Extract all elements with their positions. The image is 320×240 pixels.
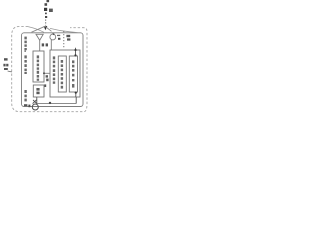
terminal circle on module boundary bbox=[32, 104, 38, 110]
wire (housing top edge sloping to rail, left) bbox=[28, 27, 44, 33]
block B (second tall inner box) bbox=[69, 56, 77, 92]
label text column along module left edge (segment 3) bbox=[24, 90, 26, 101]
node label 424 (between wires) bbox=[42, 43, 48, 46]
label text column inside main block left bbox=[53, 56, 55, 83]
transducer X1 (circle hanging from top rail) bbox=[52, 33, 54, 34]
block U1 (left tall box) bbox=[33, 51, 44, 82]
node label 110 (vertical reference numeral at top) bbox=[44, 0, 53, 18]
wire from block B bottom to main block bottom bbox=[75, 92, 77, 97]
label text column along module left edge (segment 2) bbox=[24, 55, 26, 74]
housing (outer dashed rounded enclosure) bbox=[12, 27, 87, 112]
transistor Q1 (emitter marks above bottom circle) bbox=[36, 97, 38, 104]
node label 34 (under wire) bbox=[46, 75, 48, 77]
node label 108 bbox=[66, 35, 70, 37]
main block (big right box) bbox=[50, 50, 80, 97]
label text in block A bbox=[61, 60, 63, 89]
wire lead to housing bbox=[8, 71, 12, 72]
junction dot bbox=[74, 49, 76, 51]
node label 28 (right of circle) bbox=[57, 35, 60, 36]
junction dot bbox=[75, 92, 77, 94]
label text in block B bbox=[72, 60, 74, 87]
bottom rail wire bbox=[37, 103, 76, 105]
wire from main block top edge into block B bbox=[75, 48, 77, 56]
junction dot bbox=[74, 54, 76, 56]
module (inner solid rounded box) bbox=[22, 33, 84, 107]
junction dot on U1 edge bbox=[43, 72, 45, 74]
block A (first tall inner box) bbox=[58, 56, 66, 92]
label text in U2 bbox=[36, 88, 39, 91]
label text column along module left edge (rotated, segment 1) bbox=[24, 37, 26, 52]
wire from X1 to block 2 bbox=[50, 40, 52, 50]
junction dot on bottom rail bbox=[49, 102, 51, 104]
node label 12 (outside left, with lead) bbox=[3, 58, 8, 70]
wire from U1 to main block bbox=[44, 72, 50, 74]
wire lead line (dotted, right cluster) bbox=[63, 31, 65, 48]
node label (left of circle) bbox=[24, 104, 27, 106]
wire (housing top edge sloping from apex to right) bbox=[50, 28, 78, 32]
antenna arc (tent over top rail) bbox=[32, 26, 52, 32]
wire from main block bottom down to bottom rail bbox=[75, 97, 77, 104]
wire lead line (dotted) from label to apex bbox=[45, 20, 47, 26]
node label 7 (right of U2 top) bbox=[44, 84, 46, 87]
block U2 (left small box) bbox=[33, 85, 44, 97]
diode D1 (down triangle) bbox=[36, 34, 43, 40]
wire from D1 to block 1 bbox=[39, 40, 41, 51]
node arrowhead pointing at antenna apex bbox=[44, 26, 48, 30]
label text in U1 (rotated) bbox=[37, 55, 39, 80]
